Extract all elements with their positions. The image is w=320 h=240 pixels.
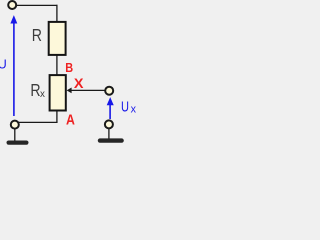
- wire wiper to right terminal: [70, 89, 105, 91]
- wire bottom horizontal to left terminal: [15, 121, 58, 123]
- svg-text:B: B: [65, 60, 73, 75]
- svg-text:U: U: [0, 57, 7, 72]
- potentiometer wiper arrowhead: [67, 88, 72, 94]
- terminal right bottom: [105, 120, 113, 128]
- wire right ground stub: [108, 128, 110, 138]
- ground left: [7, 141, 29, 145]
- svg-text:A: A: [66, 113, 75, 129]
- wire left ground stub: [14, 129, 16, 142]
- wire below Rx vertical: [56, 111, 58, 123]
- wire top vertical to R: [56, 5, 58, 22]
- voltage arrow U (blue, pointing up): [10, 15, 17, 116]
- resistor Rx (potentiometer body): [50, 75, 66, 110]
- wire R to Rx: [56, 55, 58, 75]
- label Ux: [121, 100, 136, 116]
- label Rx: [30, 80, 45, 100]
- svg-text:U: U: [121, 100, 129, 116]
- voltage arrow Ux (blue, pointing up): [107, 97, 114, 119]
- resistor R: [49, 22, 66, 55]
- svg-text:X: X: [74, 76, 85, 91]
- terminal bottom-left: [11, 121, 19, 129]
- terminal right top (X tap): [105, 87, 113, 95]
- svg-text:x: x: [131, 103, 136, 115]
- ground right: [98, 138, 124, 142]
- svg-text:R: R: [32, 25, 42, 45]
- terminal top-left: [8, 1, 16, 9]
- svg-text:x: x: [40, 88, 46, 100]
- wire top horizontal: [17, 4, 58, 6]
